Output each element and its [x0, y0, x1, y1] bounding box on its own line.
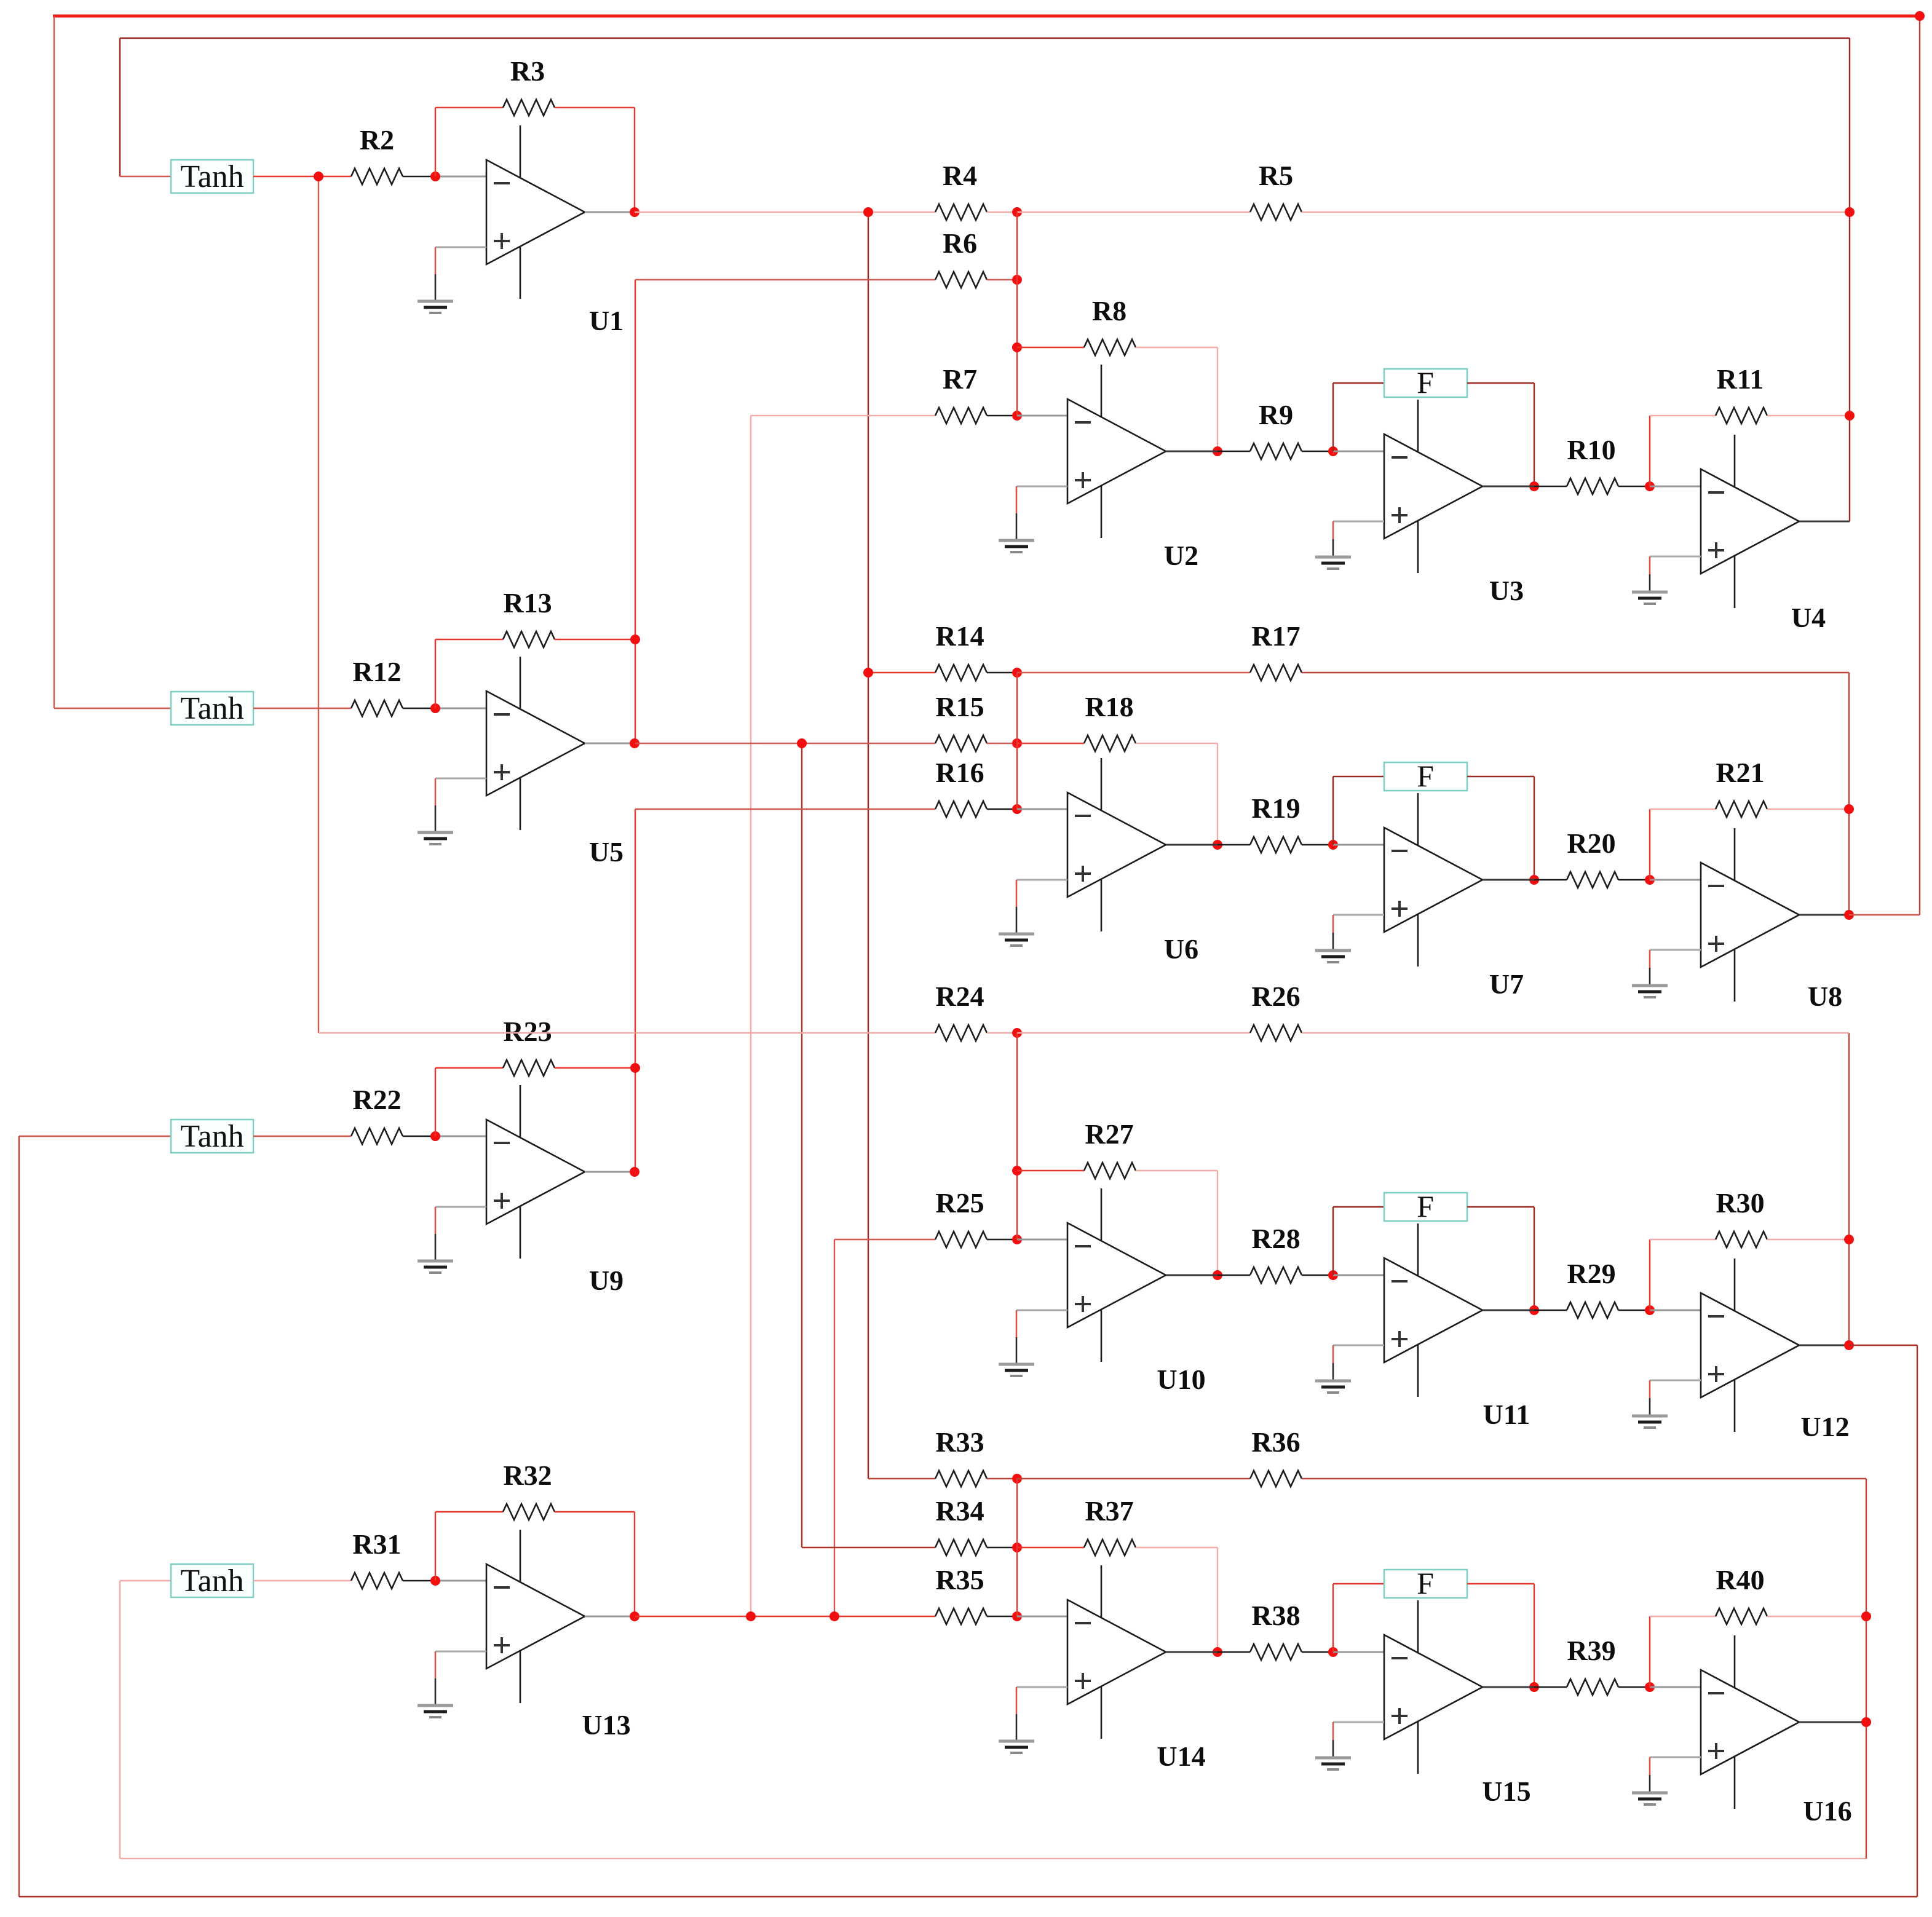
- resistor R16: [935, 757, 987, 817]
- wire R19 to node: [1302, 844, 1333, 845]
- op-amp U8: [1701, 828, 1799, 1002]
- resistor R34: [935, 1495, 987, 1555]
- resistor R32: [503, 1460, 555, 1520]
- wire summing node vertical row2: [1016, 673, 1018, 809]
- wire R40 riser: [1649, 1616, 1650, 1687]
- label U13: [582, 1709, 630, 1741]
- label U1: [589, 305, 624, 336]
- ground of U14: [999, 1687, 1067, 1753]
- wire node to U9 minus: [435, 1136, 486, 1137]
- junction U16 output: [1861, 1717, 1871, 1727]
- wire U8 output: [1799, 914, 1849, 916]
- resistor R3: [503, 55, 555, 116]
- wire U2 output to R9: [1217, 451, 1250, 452]
- wire right vertical row3 R26 leg (x3007): [1848, 1033, 1850, 1345]
- svg-text:R4: R4: [943, 160, 977, 191]
- wire riser U1-out-to-R14/R33 (x1412): [868, 212, 869, 1479]
- label U14: [1157, 1741, 1205, 1772]
- wire summing node to U6 minus: [1017, 808, 1067, 810]
- wire F row2 left: [1333, 776, 1384, 777]
- wire R17 row right: [1302, 672, 1849, 673]
- junction R28 output: [1328, 1270, 1338, 1280]
- wire F row2 right leg: [1534, 777, 1535, 880]
- junction summing node R34: [1012, 1543, 1022, 1552]
- svg-text:U2: U2: [1164, 540, 1198, 571]
- wire Tanh4 output: [253, 1580, 351, 1581]
- wire R8 right: [1136, 347, 1217, 348]
- svg-text:U11: U11: [1483, 1399, 1530, 1430]
- junction summing node R15: [1012, 738, 1022, 748]
- wire left vertical to Tanh3: [18, 1136, 20, 1897]
- wire U13 output stub: [585, 1616, 635, 1618]
- wire R23 top right: [555, 1067, 635, 1069]
- label U7: [1489, 968, 1524, 1000]
- junction summing node R24: [1012, 1028, 1022, 1038]
- wire U14 output stub: [1166, 1651, 1217, 1653]
- wire F row4 left leg: [1332, 1584, 1334, 1652]
- wire R6 to summing node: [987, 279, 1017, 280]
- wire node to U1 minus: [435, 176, 486, 178]
- svg-text:R19: R19: [1251, 792, 1300, 824]
- wire F row4 right: [1467, 1583, 1534, 1584]
- svg-text:F: F: [1417, 365, 1434, 400]
- resistor R36: [1250, 1426, 1302, 1487]
- svg-text:R36: R36: [1251, 1426, 1300, 1458]
- resistor R37: [1084, 1495, 1136, 1555]
- wire summing node to U14 minus: [1017, 1616, 1067, 1618]
- wire R33 to summing node: [987, 1478, 1017, 1479]
- junction U13 output: [630, 1611, 639, 1621]
- wire node to U12 minus: [1650, 1310, 1701, 1311]
- op-amp U3: [1384, 400, 1483, 573]
- svg-text:R25: R25: [935, 1187, 984, 1219]
- wire summing node to U2 minus: [1017, 415, 1067, 417]
- label U12: [1800, 1411, 1849, 1442]
- wire U10 output stub: [1166, 1275, 1217, 1276]
- wire U1 output row (to R4): [635, 211, 935, 213]
- wire R17 row left: [1017, 672, 1250, 673]
- junction R23 to U9 output riser: [630, 1063, 640, 1073]
- wire U9 output stub: [585, 1171, 635, 1173]
- wire R8 left: [1017, 347, 1084, 348]
- wire riser U9-out-to-R16 (x1033): [635, 809, 636, 1172]
- wire R32 left leg: [435, 1512, 436, 1581]
- junction summing node R7: [1012, 411, 1022, 421]
- wire F row3 right leg: [1534, 1207, 1535, 1310]
- wire U16 output: [1799, 1721, 1866, 1723]
- svg-text:R23: R23: [503, 1016, 552, 1047]
- svg-text:R37: R37: [1085, 1495, 1133, 1527]
- ground of U3: [1315, 521, 1384, 569]
- resistor R18: [1084, 691, 1136, 751]
- wire R30 riser: [1649, 1239, 1650, 1310]
- svg-text:R34: R34: [935, 1495, 984, 1527]
- wire R27 left: [1017, 1170, 1084, 1171]
- junction summing node R8: [1012, 342, 1022, 352]
- svg-text:U14: U14: [1157, 1741, 1205, 1772]
- wire Tanh3 output: [253, 1136, 351, 1137]
- junction R14 tap on riser x1412: [863, 668, 873, 678]
- wire neuron-1 feedback top: [120, 38, 1850, 39]
- wire left vertical to Tanh2: [53, 16, 55, 708]
- label U3: [1489, 575, 1524, 606]
- svg-text:R5: R5: [1259, 160, 1293, 191]
- resistor R31: [351, 1528, 403, 1589]
- svg-text:U3: U3: [1489, 575, 1524, 606]
- svg-text:U9: U9: [589, 1265, 624, 1296]
- wire R3 top left: [435, 107, 503, 108]
- label U8: [1808, 981, 1842, 1012]
- resistor R20: [1567, 828, 1618, 888]
- svg-text:U15: U15: [1482, 1776, 1530, 1807]
- label U10: [1157, 1364, 1205, 1395]
- wire R16 row left: [635, 808, 935, 810]
- wire R15 to summing node: [987, 743, 1017, 744]
- wire F row3 left: [1333, 1206, 1384, 1208]
- op-amp U13: [486, 1530, 585, 1703]
- junction summing node R33: [1012, 1474, 1022, 1484]
- op-amp U16: [1701, 1635, 1799, 1809]
- op-amp U4: [1701, 435, 1799, 608]
- wire Tanh4 input: [120, 1580, 171, 1581]
- junction R27 to U10 output: [1213, 1270, 1222, 1280]
- svg-text:R13: R13: [503, 587, 552, 619]
- wire R31 to node: [403, 1580, 435, 1581]
- Tanh block 3: [171, 1119, 253, 1154]
- wire node to U7 minus: [1333, 844, 1384, 846]
- junction U5-out to riser x1304: [797, 738, 807, 748]
- wire U13 output row (to R35): [635, 1616, 935, 1617]
- wire F row3 left leg: [1332, 1207, 1334, 1275]
- ground of U8: [1632, 950, 1701, 997]
- wire R36 row left: [1017, 1478, 1250, 1479]
- svg-text:R17: R17: [1251, 620, 1300, 652]
- ground of U4: [1632, 556, 1701, 604]
- wire R13 left leg: [435, 639, 436, 708]
- svg-text:U8: U8: [1808, 981, 1842, 1012]
- svg-text:U10: U10: [1157, 1364, 1205, 1395]
- junction R13 to U5 output riser: [630, 634, 640, 644]
- wire R8 right leg: [1217, 347, 1218, 451]
- wire R9 to node: [1302, 451, 1333, 452]
- svg-text:R20: R20: [1567, 828, 1615, 859]
- label U6: [1164, 933, 1198, 965]
- resistor R10: [1567, 434, 1618, 494]
- op-amp U10: [1067, 1188, 1166, 1362]
- svg-text:R28: R28: [1251, 1223, 1300, 1254]
- wire R32 top left: [435, 1511, 503, 1512]
- wire node to U13 minus: [435, 1580, 486, 1582]
- wire U4 output: [1799, 521, 1850, 523]
- wire R30 left: [1650, 1239, 1716, 1240]
- wire F row1 left leg: [1332, 383, 1334, 451]
- svg-text:R29: R29: [1567, 1258, 1615, 1289]
- wire R32 top right: [555, 1511, 635, 1512]
- junction R8 to U2 output: [1213, 446, 1222, 456]
- junction U13-out to riser x1221: [746, 1611, 756, 1621]
- junction Tanh1 output tap: [314, 172, 323, 181]
- wire R3 right leg: [634, 108, 635, 212]
- svg-text:R32: R32: [503, 1460, 552, 1491]
- wire R11 riser: [1649, 416, 1650, 486]
- svg-text:R8: R8: [1092, 295, 1126, 326]
- wire node to U15 minus: [1333, 1651, 1384, 1653]
- wire F row1 right: [1467, 382, 1534, 384]
- svg-text:U13: U13: [582, 1709, 630, 1741]
- wire R22 to node: [403, 1136, 435, 1137]
- wire F row2 right: [1467, 776, 1534, 777]
- svg-text:U4: U4: [1791, 602, 1826, 633]
- wire R14 to summing node: [987, 672, 1017, 673]
- wire R37 right: [1136, 1547, 1217, 1548]
- resistor R21: [1716, 757, 1767, 817]
- wire R7 row left: [751, 415, 935, 416]
- resistor R40: [1716, 1564, 1767, 1624]
- wire R33 row left: [868, 1478, 935, 1479]
- wire riser U13-out-to-R25 (x1357): [834, 1239, 835, 1616]
- wire R18 right leg: [1217, 743, 1218, 845]
- junction summing node R35: [1012, 1611, 1022, 1621]
- resistor R25: [935, 1187, 987, 1247]
- wire U2 output stub: [1166, 451, 1217, 453]
- junction summing node R4: [1012, 207, 1022, 217]
- wire Tanh2 input: [54, 708, 171, 709]
- wire U12 output: [1799, 1345, 1849, 1346]
- resistor R7: [935, 363, 987, 424]
- wire U12 output to x3118: [1849, 1345, 1917, 1346]
- ground of U12: [1632, 1380, 1701, 1428]
- svg-text:Tanh: Tanh: [180, 1119, 243, 1154]
- wire summing node vertical row4: [1016, 1479, 1018, 1616]
- wire R12 to node: [403, 708, 435, 709]
- wire U7 output to R20: [1534, 879, 1567, 880]
- wire summing node vertical row3: [1016, 1033, 1018, 1239]
- ground of U5: [418, 778, 486, 844]
- wire R6 row left: [635, 279, 935, 280]
- wire U15 output to R39: [1534, 1686, 1567, 1688]
- op-amp U7: [1384, 793, 1483, 966]
- junction at R2 output: [430, 172, 440, 181]
- wire R11 right: [1767, 415, 1850, 416]
- wire R32 right leg: [634, 1512, 635, 1616]
- wire R5 row left: [1017, 211, 1250, 213]
- op-amp U15: [1384, 1600, 1483, 1774]
- svg-text:R39: R39: [1567, 1635, 1615, 1666]
- F block row 2: [1384, 759, 1467, 793]
- resistor R19: [1250, 792, 1302, 853]
- label U11: [1483, 1399, 1530, 1430]
- svg-text:R35: R35: [935, 1564, 984, 1595]
- resistor R13: [503, 587, 555, 647]
- ground of U2: [999, 486, 1067, 552]
- wire F row3 right: [1467, 1206, 1534, 1208]
- ground of U1: [418, 247, 486, 313]
- wire U6 output stub: [1166, 844, 1217, 846]
- wire R21 left: [1650, 808, 1716, 810]
- wire R26 row right: [1302, 1032, 1849, 1034]
- wire F row4 left: [1333, 1583, 1384, 1584]
- ground of U9: [418, 1207, 486, 1273]
- wire right vertical neuron-1 (x3008): [1849, 38, 1850, 521]
- resistor R17: [1250, 620, 1302, 681]
- F block row 1: [1384, 365, 1467, 400]
- label U4: [1791, 602, 1826, 633]
- svg-text:Tanh: Tanh: [180, 691, 243, 726]
- junction at R31 output: [430, 1576, 440, 1586]
- op-amp U14: [1067, 1565, 1166, 1739]
- svg-text:R33: R33: [935, 1426, 984, 1458]
- wire U6 output to R19: [1217, 844, 1250, 845]
- junction U8 output: [1844, 910, 1854, 920]
- junction U9 output: [630, 1167, 639, 1177]
- junction R20 output: [1645, 875, 1655, 885]
- wire R30 right: [1767, 1239, 1849, 1240]
- junction R18 to U6 output: [1213, 840, 1222, 850]
- wire node to U16 minus: [1650, 1686, 1701, 1688]
- Tanh block 2: [171, 691, 253, 726]
- wire left vertical to Tanh1: [119, 38, 121, 176]
- wire R28 to node: [1302, 1275, 1333, 1276]
- resistor R33: [935, 1426, 987, 1487]
- resistor R9: [1250, 399, 1302, 459]
- junction top feedback corner: [1915, 11, 1925, 21]
- wire left vertical to Tanh4: [119, 1581, 121, 1859]
- wire U8 output to x3122: [1849, 914, 1920, 915]
- wire node to U4 minus: [1650, 486, 1701, 488]
- svg-text:R3: R3: [510, 55, 545, 87]
- wire R26 row left: [1017, 1032, 1250, 1034]
- wire summing node to U10 minus: [1017, 1239, 1067, 1241]
- wire R13 top right: [555, 639, 635, 640]
- wire R34 row left: [802, 1547, 935, 1548]
- wire R35 to summing node: [987, 1616, 1017, 1617]
- junction R39 output: [1645, 1682, 1655, 1692]
- wire right vertical neuron-3 (x3118): [1917, 1345, 1918, 1897]
- wire node to U5 minus: [435, 708, 486, 709]
- junction U13-out to riser x1357: [829, 1611, 839, 1621]
- wire R3 top right: [555, 107, 635, 108]
- wire U15 output stub: [1483, 1686, 1534, 1688]
- wire right vertical row2 R17 leg (x3007): [1848, 673, 1850, 915]
- junction F to U11 output: [1529, 1305, 1539, 1315]
- wire R18 left: [1017, 743, 1084, 744]
- svg-text:R14: R14: [935, 620, 984, 652]
- svg-text:R30: R30: [1716, 1187, 1764, 1219]
- op-amp U5: [486, 657, 585, 830]
- junction summing node R6: [1012, 275, 1022, 285]
- wire Tanh1 input: [120, 176, 171, 177]
- svg-text:U1: U1: [589, 305, 624, 336]
- svg-text:R2: R2: [360, 124, 394, 156]
- wire U3 output to R10: [1534, 486, 1567, 487]
- junction F to U3 output: [1529, 481, 1539, 491]
- junction summing node R16: [1012, 804, 1022, 814]
- wire R37 left: [1017, 1547, 1084, 1548]
- wire R23 left leg: [435, 1068, 436, 1136]
- svg-text:R27: R27: [1085, 1118, 1133, 1150]
- wire R24 to summing node: [987, 1032, 1017, 1034]
- wire R24 row left: [319, 1032, 935, 1034]
- resistor R27: [1084, 1118, 1136, 1179]
- wire riser U13-out-to-R7 (x1221): [750, 416, 751, 1616]
- wire R5 row right: [1302, 211, 1850, 213]
- op-amp U1: [486, 125, 585, 299]
- junction R21 to output vertical: [1844, 804, 1854, 814]
- resistor R12: [351, 656, 403, 716]
- wire riser Tanh1-to-R24 (x518): [318, 176, 319, 1033]
- wire R14 row left: [868, 672, 935, 673]
- junction at R12 output: [430, 703, 440, 713]
- wire U11 output to R29: [1534, 1310, 1567, 1311]
- ground of U16: [1632, 1757, 1701, 1804]
- ground of U7: [1315, 915, 1384, 962]
- resistor R2: [351, 124, 403, 184]
- ground of U11: [1315, 1345, 1384, 1393]
- wire bottom neuron-4 feedback: [120, 1858, 1866, 1859]
- wire riser U5-out-to-R34 (x1304): [801, 743, 802, 1547]
- wire R40 left: [1650, 1616, 1716, 1617]
- wire R4 to summing node: [987, 211, 1017, 213]
- svg-text:R11: R11: [1717, 363, 1764, 395]
- label U16: [1803, 1795, 1851, 1827]
- svg-text:U6: U6: [1164, 933, 1198, 965]
- ground of U15: [1315, 1722, 1384, 1769]
- junction U1-out to riser x1412: [863, 207, 873, 217]
- wire R36 row right: [1302, 1478, 1866, 1479]
- ground of U13: [418, 1651, 486, 1717]
- label U2: [1164, 540, 1198, 571]
- svg-text:R16: R16: [935, 757, 984, 788]
- resistor R39: [1567, 1635, 1618, 1695]
- wire summing node vertical row1: [1016, 212, 1018, 416]
- resistor R23: [503, 1016, 555, 1076]
- junction R30 to output vertical: [1844, 1235, 1854, 1244]
- wire node to U8 minus: [1650, 879, 1701, 881]
- resistor R15: [935, 691, 987, 751]
- svg-text:Tanh: Tanh: [180, 1563, 243, 1599]
- op-amp U9: [486, 1085, 585, 1259]
- wire U14 output to R38: [1217, 1651, 1250, 1653]
- wire R27 right leg: [1217, 1171, 1218, 1275]
- wire R40 right: [1767, 1616, 1866, 1617]
- wire R10 to node: [1618, 486, 1650, 487]
- resistor R26: [1250, 981, 1302, 1041]
- wire R34 to summing node: [987, 1547, 1017, 1548]
- wire R23 top left: [435, 1067, 503, 1069]
- wire U7 output stub: [1483, 879, 1534, 881]
- wire F row4 right leg: [1534, 1584, 1535, 1687]
- resistor R4: [935, 160, 987, 220]
- wire F row2 left leg: [1332, 777, 1334, 845]
- label U15: [1482, 1776, 1530, 1807]
- wire R27 right: [1136, 1170, 1217, 1171]
- Tanh block 4: [171, 1563, 253, 1599]
- svg-text:R9: R9: [1259, 399, 1293, 430]
- wire F row1 right leg: [1534, 383, 1535, 486]
- op-amp U11: [1384, 1223, 1483, 1397]
- junction R29 output: [1645, 1305, 1655, 1315]
- wire node to U11 minus: [1333, 1275, 1384, 1276]
- wire U3 output stub: [1483, 486, 1534, 488]
- svg-text:R7: R7: [943, 363, 977, 395]
- wire R11 left: [1650, 415, 1716, 416]
- svg-text:Tanh: Tanh: [180, 159, 243, 194]
- F block row 3: [1384, 1189, 1467, 1223]
- op-amp U2: [1067, 365, 1166, 538]
- op-amp U12: [1701, 1259, 1799, 1432]
- junction U12 output: [1844, 1340, 1854, 1350]
- F block row 4: [1384, 1566, 1467, 1600]
